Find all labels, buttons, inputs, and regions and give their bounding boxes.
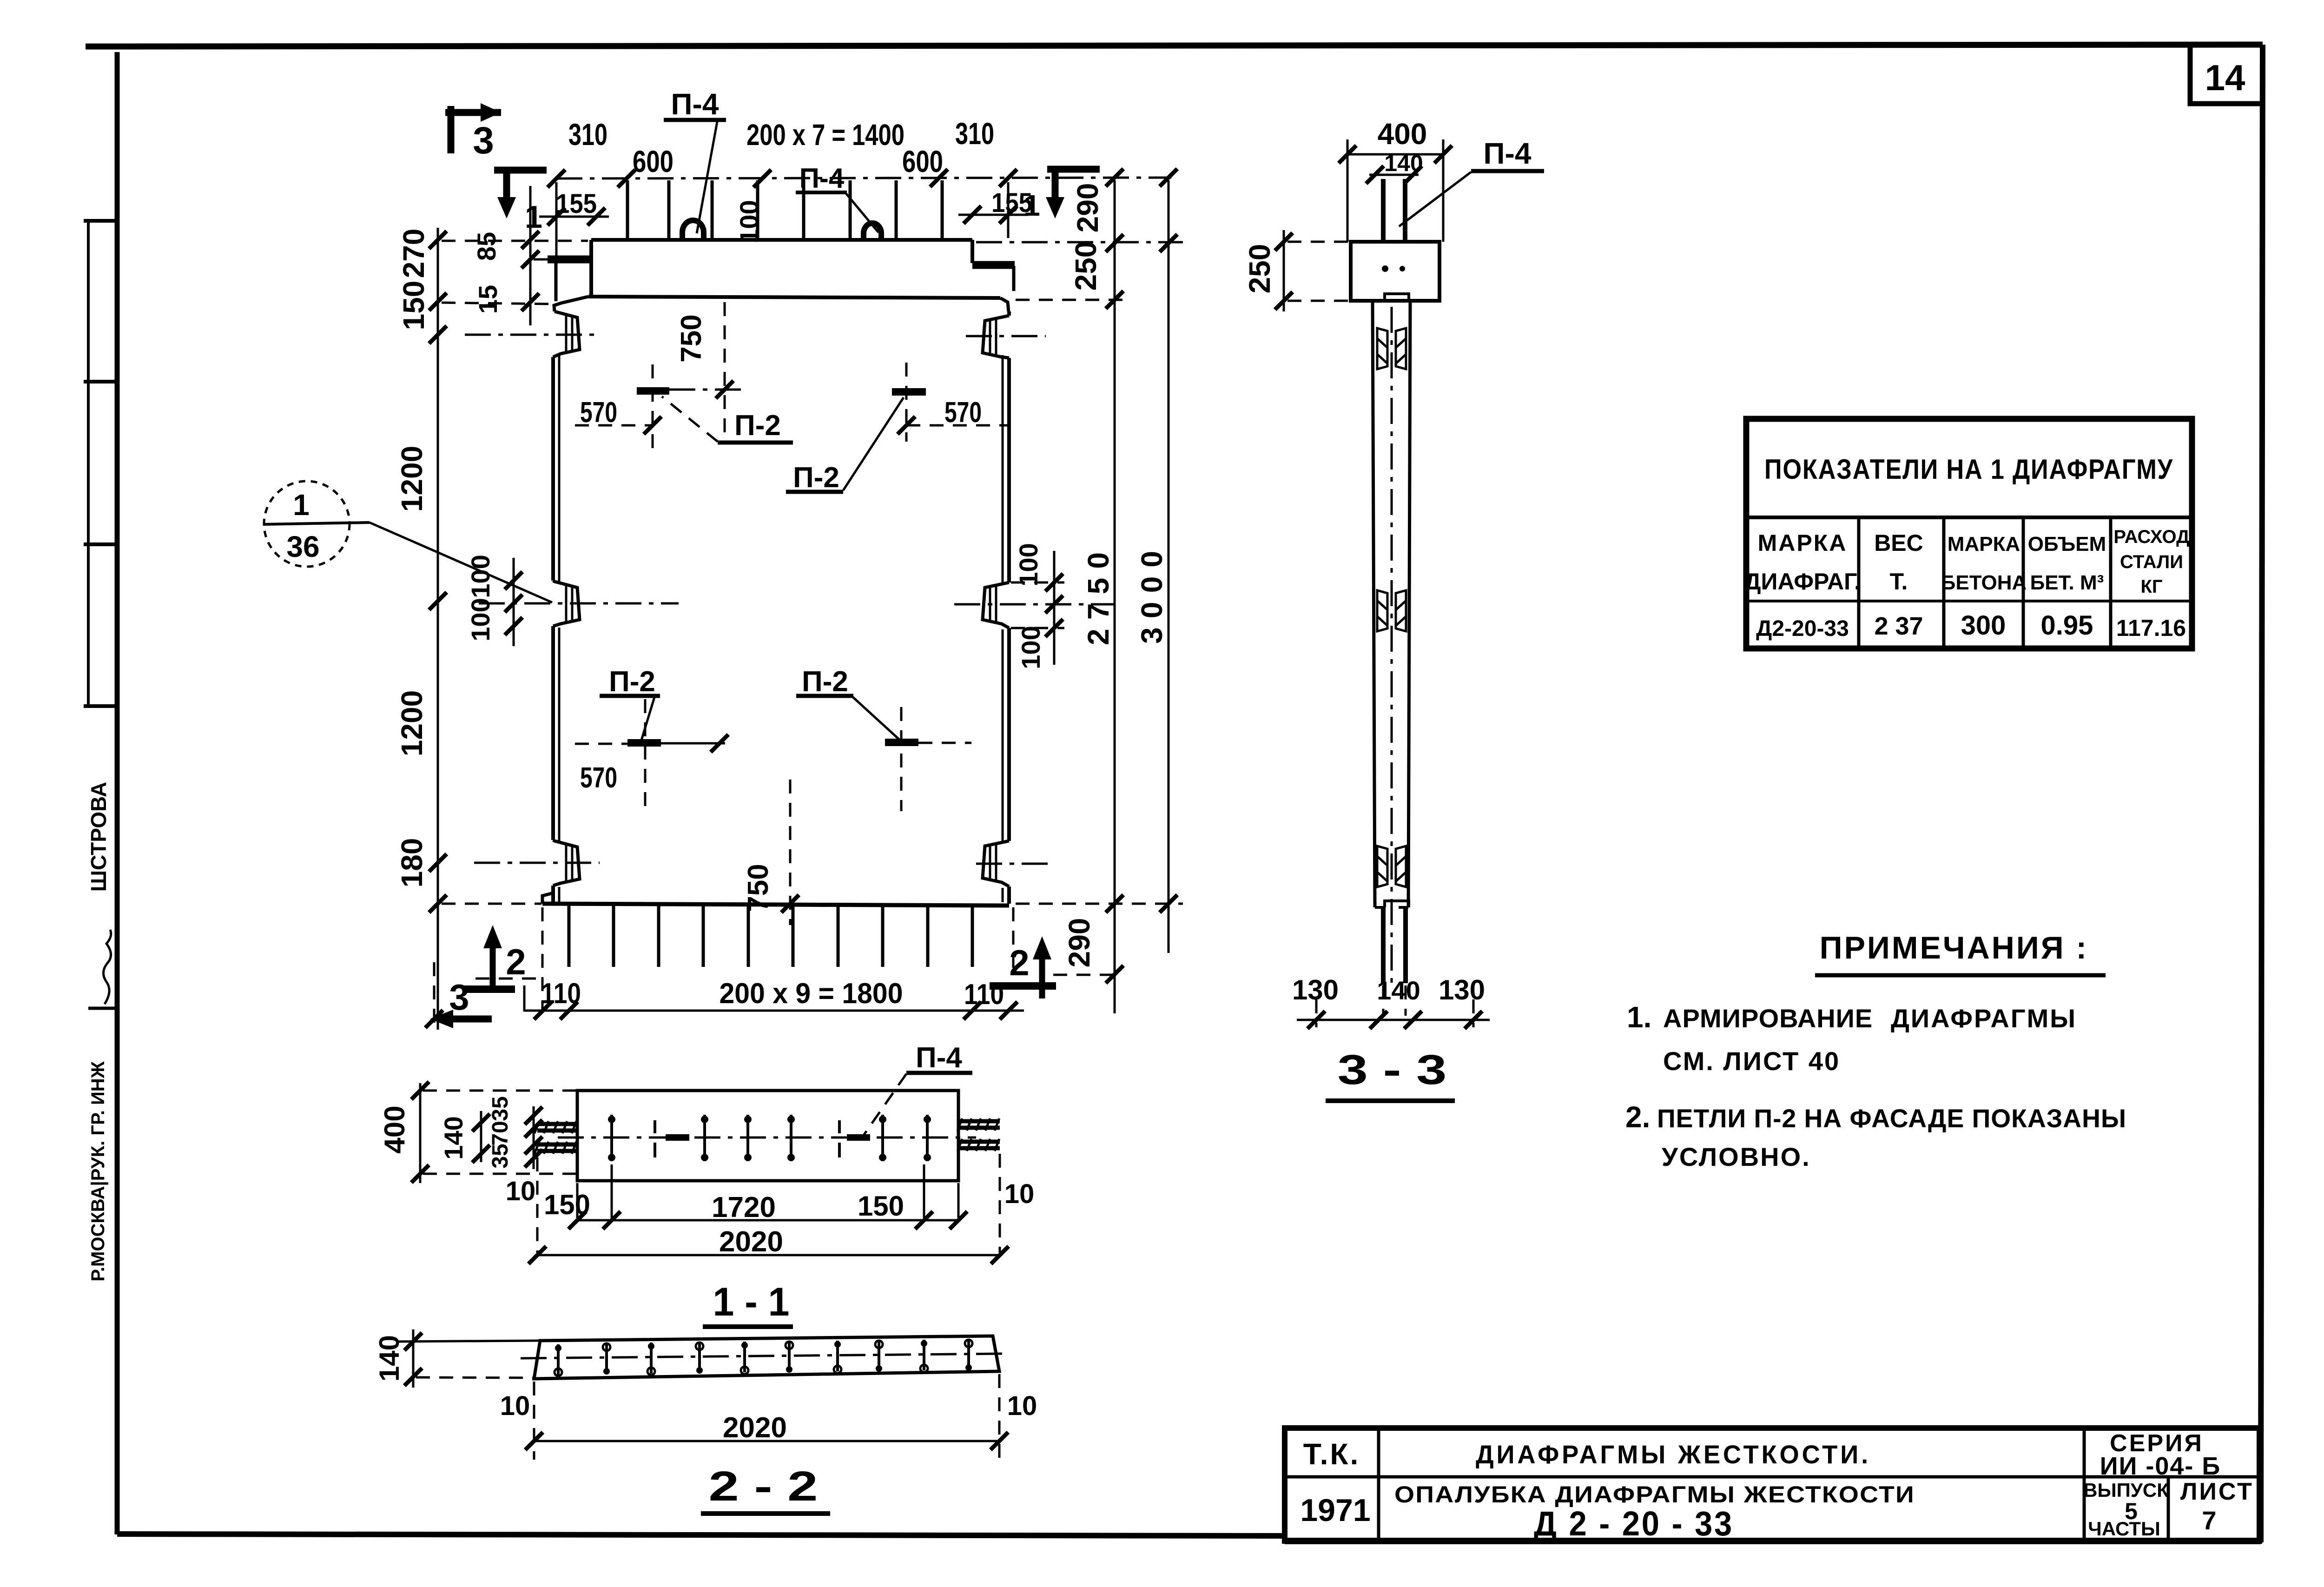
sec11 left bars hatched (537, 1124, 578, 1151)
sec22 marks (558, 1339, 969, 1375)
right key2 dim line (1053, 551, 1056, 665)
svg-text:100: 100 (734, 200, 764, 243)
sec11 dim row2 ext (537, 1154, 1000, 1253)
sec11 dim 140 line (480, 1111, 482, 1162)
svg-text:1200: 1200 (395, 446, 429, 512)
P2 label upper right leader (843, 397, 904, 490)
table outer frame (1746, 419, 2192, 648)
sec11 cross marks small heads (608, 1116, 931, 1161)
right key3 center dashdot (976, 863, 1050, 865)
bottom dim start extension (523, 985, 526, 1012)
title block bottom thick (1285, 1538, 2261, 1544)
lifting loop P4 right on beam (864, 223, 881, 240)
dim 570 upper right tick (898, 417, 915, 434)
sec33 dim 140 line (1369, 174, 1419, 176)
svg-text:П-4: П-4 (1484, 137, 1532, 170)
top dim ticks (548, 170, 565, 187)
svg-text:1.: 1. (1627, 1000, 1651, 1034)
panel left inner line (558, 354, 561, 902)
section mark 2 bottom left dashes (475, 978, 542, 980)
bottom dim ticks (534, 1002, 552, 1019)
dim 750 lower axis (789, 780, 792, 925)
svg-text:Т.К.: Т.К. (1303, 1437, 1360, 1471)
svg-text:7: 7 (2202, 1506, 2216, 1535)
svg-text:10: 10 (506, 1176, 536, 1206)
sec33 column right edge (1408, 301, 1410, 907)
svg-text:МАРКА: МАРКА (1948, 533, 2020, 555)
dim 570 upper left tick (644, 417, 661, 434)
beam left edge (589, 240, 593, 296)
svg-text:СТАЛИ: СТАЛИ (2120, 552, 2183, 572)
margin tick 3 (84, 542, 117, 546)
table column line 4 (2109, 517, 2113, 648)
bottom dim line (524, 1010, 1024, 1012)
svg-text:10: 10 (1007, 1391, 1037, 1421)
svg-text:290: 290 (1063, 918, 1096, 968)
sec11 dim 35 70 35 line (533, 1106, 535, 1169)
svg-text:600: 600 (633, 144, 673, 179)
svg-text:85: 85 (472, 232, 501, 261)
sec11 P4 underline (906, 1071, 972, 1075)
ext dashed y645 right (1016, 299, 1125, 301)
svg-text:400: 400 (1378, 117, 1427, 151)
panel top left transition (554, 297, 588, 311)
P2 loop bar upper left (637, 387, 669, 395)
P2 label lower right underline (796, 694, 853, 698)
sec33 block dot left (1382, 265, 1388, 272)
section mark 1 left: bar (494, 170, 547, 210)
sec33 dim 250 ext top (1287, 241, 1348, 243)
sec22 dim ext (534, 1374, 999, 1460)
svg-text:КГ: КГ (2140, 576, 2162, 597)
svg-text:ПЕТЛИ П-2 НА ФАСАДЕ ПОКАЗАНЫ: ПЕТЛИ П-2 НА ФАСАДЕ ПОКАЗАНЫ (1657, 1104, 2126, 1133)
svg-text:200 x 7 = 1400: 200 x 7 = 1400 (746, 118, 905, 152)
P4 label mid underline (796, 191, 847, 194)
sec33 label underline (1326, 1098, 1455, 1103)
sec11 dim row2 line (537, 1254, 1000, 1256)
right key2 dim ticks (1045, 574, 1063, 591)
section mark 2 bottom left arrow line (490, 939, 496, 989)
sec11 P4 leader (863, 1074, 906, 1137)
sec33 key bot left (1377, 846, 1387, 887)
section mark 1 left: arrow (497, 197, 516, 218)
sheet number box (2190, 46, 2262, 104)
sec33 dim 400 line (1347, 153, 1443, 156)
svg-text:ИИ -04- Б: ИИ -04- Б (2100, 1452, 2221, 1480)
svg-text:150: 150 (397, 281, 430, 331)
margin tick 1 (84, 219, 117, 223)
section mark 3 bottom tick (425, 1010, 443, 1028)
right key 3 (983, 841, 1009, 886)
svg-text:МАРКА: МАРКА (1758, 530, 1848, 556)
svg-text:600: 600 (902, 144, 943, 179)
svg-text:3: 3 (449, 977, 469, 1018)
sec33 P4 leader (1399, 172, 1471, 226)
sec11 right bars hatched (958, 1121, 1000, 1148)
sec33 bottom dim ext (1316, 985, 1473, 1027)
svg-text:ОПАЛУБКА ДИАФРАГМЫ ЖЕСТКОСТИ: ОПАЛУБКА ДИАФРАГМЫ ЖЕСТКОСТИ (1394, 1481, 1915, 1508)
top dimension line (556, 178, 1171, 179)
P2 loop lower left axis (644, 699, 647, 811)
svg-text:140: 140 (439, 1116, 468, 1159)
detail mark circle 1/36 (264, 481, 350, 567)
title block vertical 1 (1377, 1428, 1380, 1541)
svg-text:15: 15 (473, 285, 502, 314)
svg-text:2.: 2. (1625, 1100, 1650, 1134)
sec11 P4 dash mark right (838, 1120, 841, 1157)
margin tick 4 (84, 704, 117, 708)
sec11 P4 loop flat left (666, 1134, 689, 1141)
title block mid horizontal (1285, 1475, 2259, 1479)
svg-text:150: 150 (858, 1190, 904, 1222)
svg-text:ЧАСТЬI: ЧАСТЬI (2088, 1518, 2160, 1540)
bottom hatch ticks 200x9 (569, 904, 972, 967)
ext dashed 290 bottom right (1053, 974, 1121, 976)
panel right inner line (1002, 355, 1004, 902)
margin tick 5 (88, 1007, 117, 1010)
panel right outer edge segments (1007, 311, 1011, 904)
sec11 P4 dash mark left (654, 1120, 656, 1157)
left key 2 (553, 581, 580, 626)
ext dashed y516 (442, 240, 588, 242)
sec11 dim row2 ticks (528, 1246, 546, 1264)
P4 label mid leader (846, 193, 878, 232)
sec33 block dot right (1400, 266, 1405, 271)
sec33 P4 underline (1471, 169, 1544, 173)
sec22 top-left extension (396, 1341, 540, 1342)
svg-text:310: 310 (955, 116, 994, 151)
title block vertical 2 (2083, 1428, 2086, 1541)
section mark 3 bottom arrowhead (430, 1010, 453, 1028)
beam right edge (971, 240, 974, 263)
top dim extension left (555, 182, 558, 256)
svg-text:Д2-20-33: Д2-20-33 (1756, 616, 1849, 641)
section mark 3 bottom bar (437, 1016, 492, 1023)
P4 label top leader (697, 122, 717, 233)
ext dashed y558 (534, 258, 548, 261)
P2 loop upper left axis (652, 364, 654, 454)
right dim line 3000 (1168, 180, 1170, 953)
svg-text:130: 130 (1439, 974, 1485, 1005)
svg-text:ПРИМЕЧАНИЯ :: ПРИМЕЧАНИЯ : (1820, 930, 2088, 965)
svg-text:1: 1 (525, 199, 542, 235)
sec11 right bars hatch fill (957, 1118, 999, 1151)
left outer dim line (437, 228, 439, 1030)
svg-text:10: 10 (500, 1391, 530, 1421)
sec11 cross marks (612, 1115, 927, 1161)
svg-text:П-4: П-4 (671, 87, 719, 121)
table header row line (1746, 600, 2192, 602)
sec22 mark dots bottom (555, 1340, 972, 1376)
svg-text:Т.: Т. (1890, 569, 1908, 595)
panel bottom left corner jog (542, 886, 553, 904)
svg-text:ВЕС: ВЕС (1874, 530, 1923, 556)
svg-text:250: 250 (1243, 244, 1276, 294)
panel edge extension dashdot bottom right (1012, 907, 1015, 976)
sec11 centerline (558, 1137, 976, 1139)
sec22 dim ticks (525, 1432, 543, 1450)
table title row line (1746, 516, 2192, 519)
svg-text:570: 570 (580, 762, 617, 794)
right dim line 2750 (1114, 180, 1116, 1013)
svg-text:АРМИРОВАНИЕ: АРМИРОВАНИЕ (1663, 1004, 1873, 1033)
sec33 dim 250 line (1283, 230, 1285, 311)
svg-text:1720: 1720 (712, 1191, 776, 1223)
sec11 left bars hatch fill (535, 1121, 576, 1154)
svg-text:570: 570 (580, 397, 617, 429)
sec33 bottom dim line (1297, 1019, 1490, 1021)
svg-text:Р.МОСКВА|РУК. ГР. ИНЖ: Р.МОСКВА|РУК. ГР. ИНЖ (88, 1061, 108, 1281)
svg-text:310: 310 (568, 117, 607, 152)
sec33 dim 250 ext bottom (1287, 300, 1348, 302)
sec22 mark dots top (555, 1340, 972, 1375)
svg-text:П-2: П-2 (734, 410, 781, 442)
sec33 column bottom edge (1375, 901, 1409, 907)
right key 1 (983, 316, 1009, 358)
svg-text:БЕТ. М³: БЕТ. М³ (2030, 571, 2104, 594)
svg-text:П-4: П-4 (799, 163, 845, 194)
svg-text:2 - 2: 2 - 2 (709, 1463, 818, 1510)
svg-text:155: 155 (556, 189, 597, 219)
ext dashed y2021 right (1016, 903, 1183, 905)
sec11 dim row1 ext (577, 1164, 958, 1218)
svg-text:ЛИСТ: ЛИСТ (2180, 1478, 2254, 1505)
svg-text:200 x 9 = 1800: 200 x 9 = 1800 (720, 978, 903, 1010)
sec11 dim row1 line (577, 1219, 958, 1222)
sec33 key top right (1396, 328, 1406, 369)
svg-text:0.95: 0.95 (2041, 610, 2093, 641)
right key1 center dashdot (966, 335, 1046, 337)
P2 label lower left leader (641, 697, 654, 740)
sec22 outline (534, 1336, 999, 1379)
sec11 dim 140 ticks (472, 1114, 490, 1131)
sec11 dim 400 ticks (411, 1082, 429, 1099)
dim 750 upper crossbar (669, 389, 744, 391)
right dim ticks (1106, 234, 1123, 252)
detail mark divider (263, 522, 370, 524)
svg-text:3: 3 (473, 119, 494, 162)
ext dashdot key2 center left (479, 602, 679, 605)
section mark 2 bottom right bar (990, 982, 1056, 990)
sec22 dim line (534, 1440, 999, 1442)
svg-text:БЕТОНА: БЕТОНА (1941, 571, 2027, 594)
right bearing pad thick line (972, 261, 1015, 269)
P2 label upper left leader (662, 397, 718, 442)
left key 1 (553, 311, 580, 357)
svg-text:1 - 1: 1 - 1 (713, 1280, 790, 1324)
left bearing pad riser (555, 260, 558, 301)
svg-text:14: 14 (2205, 57, 2245, 98)
dim 155 right line (958, 214, 1028, 216)
panel top right transition (1000, 298, 1009, 311)
svg-text:1: 1 (1023, 189, 1040, 222)
sec33 bottom bar right (1403, 907, 1408, 983)
panel left outer edge segments (551, 357, 555, 904)
sec33 key mid left (1377, 590, 1387, 631)
section mark 3 bottom axis (433, 962, 436, 1030)
svg-text:570: 570 (944, 397, 982, 429)
svg-text:400: 400 (379, 1105, 411, 1153)
ext dashed bottom left (442, 903, 541, 905)
svg-text:290: 290 (1071, 183, 1104, 233)
sec33 dim 400 ticks (1339, 145, 1356, 163)
right key2 center dashdot (954, 603, 1116, 606)
svg-text:36: 36 (286, 530, 319, 563)
lifting loop P4 left on beam (682, 220, 704, 240)
P2 loop lower right axis (900, 707, 903, 811)
left outer dim ticks (429, 231, 447, 249)
dim 570 upper left line (575, 424, 653, 427)
P4 label top underline (664, 118, 726, 122)
svg-text:117.16: 117.16 (2116, 615, 2186, 641)
sec11 dim 357035 ticks (525, 1107, 542, 1124)
P2 label upper left underline (718, 441, 793, 445)
P2 loop bar lower right (885, 739, 918, 746)
svg-text:140: 140 (374, 1335, 405, 1382)
ext dashdot key3 center left (474, 862, 600, 864)
sec33 block notch (1385, 294, 1409, 301)
sec11 dim 400 ext (423, 1091, 576, 1174)
ext dashdot y523 right (976, 241, 1183, 244)
ext dashed right key2 top (1011, 582, 1064, 584)
svg-text:3 - 3: 3 - 3 (1338, 1047, 1447, 1093)
svg-text:110: 110 (541, 978, 581, 1010)
P2 label lower right leader (852, 696, 900, 740)
section mark 2 bottom left bar (462, 985, 515, 993)
left key2 dim line (513, 558, 515, 646)
svg-text:ВЫПУСК: ВЫПУСК (2083, 1479, 2169, 1501)
sec33 key mid right (1396, 590, 1406, 631)
ext dashed right key2 bottom (1011, 627, 1064, 629)
sec33 key top left (1377, 328, 1387, 369)
sec33 bottom dim ticks (1307, 1011, 1325, 1029)
svg-text:180: 180 (395, 838, 429, 888)
svg-text:П-2: П-2 (793, 462, 839, 494)
svg-text:140: 140 (1377, 976, 1420, 1005)
sec33 key bot right (1396, 846, 1406, 887)
svg-text:70: 70 (488, 1121, 513, 1145)
sec33 P4 bar left (1381, 179, 1386, 241)
right key 1 hatch (990, 319, 996, 356)
section mark 1 right: bar (1047, 169, 1100, 210)
right key 2 (983, 582, 1009, 628)
svg-text:ДИАФРАГ.: ДИАФРАГ. (1744, 569, 1861, 595)
section mark 1 right: arrow (1046, 197, 1064, 218)
P2 loop bar lower left (627, 739, 661, 747)
top extension ticks 200x7 (627, 180, 942, 240)
svg-text:750: 750 (675, 314, 707, 362)
sec22 dim 140 ext bottom (416, 1377, 535, 1378)
dim 570 lower left line2 (661, 742, 725, 745)
sec33 column centerline (1391, 307, 1393, 985)
svg-text:100: 100 (1016, 626, 1045, 669)
left key2 dim ticks (505, 572, 522, 589)
P2 label upper right underline (786, 490, 843, 494)
svg-text:П-2: П-2 (802, 666, 848, 698)
section mark 2 bottom right arrowhead (1033, 936, 1051, 959)
svg-text:35: 35 (488, 1096, 513, 1121)
svg-text:2 37: 2 37 (1874, 612, 1923, 640)
svg-text:ШСТРОВА: ШСТРОВА (86, 782, 111, 892)
left key 3 (553, 840, 580, 886)
margin bracket line (87, 219, 90, 708)
beam top edge (591, 238, 972, 242)
beam bottom edge / panel top line (588, 297, 1000, 298)
section mark 2 bottom right arrow line (1039, 950, 1045, 998)
dim 570 lower right line (918, 742, 971, 744)
margin signature (103, 930, 111, 1004)
sec22 dim 140 ticks (404, 1333, 422, 1350)
sec33 top block (1351, 242, 1439, 301)
svg-text:1200: 1200 (395, 690, 429, 756)
svg-text:ДИАФРАГМЫ: ДИАФРАГМЫ (1891, 1004, 2077, 1033)
left inner dim ticks (522, 231, 539, 249)
svg-text:1971: 1971 (1300, 1493, 1370, 1528)
svg-text:35: 35 (488, 1144, 513, 1168)
svg-text:2: 2 (506, 941, 526, 982)
svg-text:140: 140 (1384, 150, 1423, 176)
svg-text:ОБЪЕМ: ОБЪЕМ (2028, 533, 2106, 555)
ext dashed y649 (442, 303, 553, 304)
P2 loop bar upper right (892, 388, 926, 396)
dim 570 lower tick (711, 734, 728, 752)
sec33 P4 bar right (1403, 179, 1407, 241)
P2 loop upper right axis (905, 363, 908, 442)
section mark 2 bottom left arrowhead (483, 925, 502, 948)
svg-text:130: 130 (1292, 974, 1339, 1005)
page border left (115, 52, 120, 1534)
svg-text:ДИАФРАГМЫ ЖЕСТКОСТИ.: ДИАФРАГМЫ ЖЕСТКОСТИ. (1476, 1440, 1871, 1469)
dim 750 lower tick (781, 895, 799, 913)
sec11 dim row1 ticks (568, 1211, 586, 1229)
right key 2 hatch (990, 586, 996, 623)
panel edge extension dashdot bottom left (541, 907, 544, 1010)
sec11 outline (577, 1091, 958, 1181)
title block outer (1285, 1428, 2259, 1541)
svg-text:2020: 2020 (723, 1412, 787, 1444)
page border bottom left segment (117, 1534, 1286, 1536)
dim 155 left line (539, 216, 609, 218)
title block vertical 3 (2167, 1477, 2170, 1541)
svg-text:300: 300 (1961, 610, 2006, 641)
left inner dim line (529, 186, 532, 325)
sec22 label underline (701, 1511, 830, 1516)
sec33 bottom bar left (1381, 907, 1386, 983)
notes title underline (1815, 973, 2106, 978)
top dim extension right (1007, 182, 1010, 238)
svg-text:СМ. ЛИСТ 40: СМ. ЛИСТ 40 (1663, 1046, 1840, 1076)
sec22 dim 140 line (412, 1329, 415, 1388)
svg-text:П-4: П-4 (916, 1042, 962, 1074)
section mark 3 top: arrow (481, 103, 501, 122)
dim 570 lower left line (575, 743, 627, 745)
svg-text:270: 270 (397, 229, 430, 278)
table column line 1 (1857, 517, 1861, 648)
svg-text:150: 150 (544, 1189, 590, 1220)
dim 750 upper axis (724, 302, 726, 437)
svg-text:2020: 2020 (719, 1226, 783, 1258)
panel bottom edge (542, 904, 1009, 906)
dim 570 upper right line (906, 424, 1011, 427)
sec33 dim 250 ticks (1275, 233, 1293, 251)
section mark 3 top: bar (445, 106, 501, 153)
svg-text:УСЛОВНО.: УСЛОВНО. (1662, 1142, 1811, 1171)
left key 1 hatch (566, 315, 572, 352)
page border top (86, 45, 2263, 46)
sec11 P4 loop flat right (847, 1134, 870, 1141)
svg-text:250: 250 (1069, 241, 1103, 291)
table column line 2 (1942, 517, 1946, 648)
